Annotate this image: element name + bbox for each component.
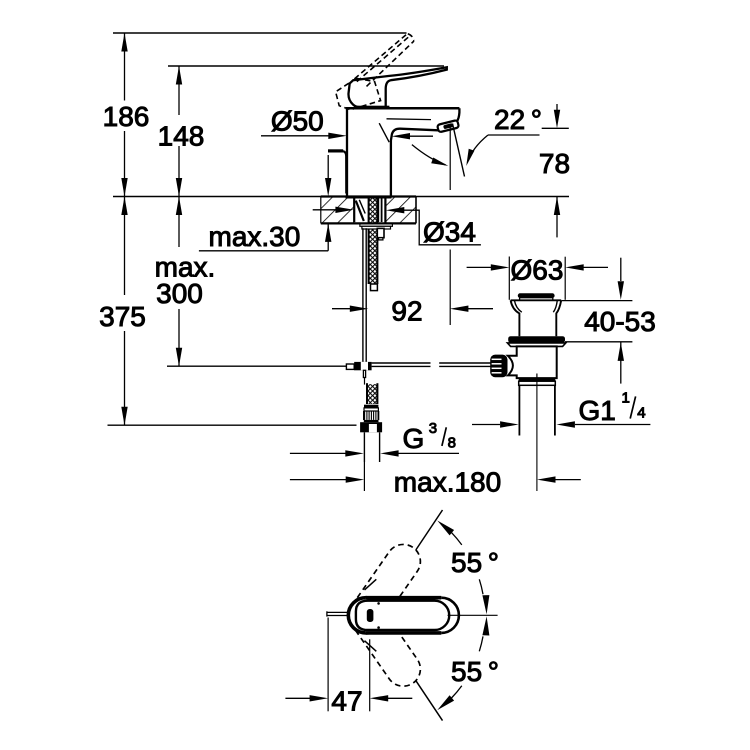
mounting flange under counter xyxy=(360,224,393,226)
wire: handle-tip reference line (148 upper extent) xyxy=(168,65,444,67)
svg-text:47: 47 xyxy=(331,686,362,717)
wire: max.300 bottom reference line xyxy=(167,365,347,367)
aerator (tilted outlet) xyxy=(437,120,459,132)
mounting nut xyxy=(362,226,391,229)
55deg upper inner tick xyxy=(365,579,377,590)
svg-text:Ø63: Ø63 xyxy=(511,254,564,285)
svg-text:4: 4 xyxy=(637,404,645,421)
svg-text:55 °: 55 ° xyxy=(451,547,499,578)
wire: top reference line (186 upper extent) xyxy=(113,32,407,34)
22-degree leader line xyxy=(488,134,540,136)
spout outlet extension line (92 right) xyxy=(449,250,451,326)
top view: circle witness dots xyxy=(377,602,380,605)
svg-text:78: 78 xyxy=(539,148,570,179)
22-degree vertical reference line xyxy=(449,128,451,191)
pop-up lift rod on faucet left xyxy=(328,149,343,152)
55deg lower line xyxy=(416,681,443,721)
dimension 40-53 xyxy=(562,300,633,302)
dimension max.180 xyxy=(290,479,346,481)
dimension 92 xyxy=(332,308,350,310)
drain rubber gasket (black) xyxy=(508,336,565,343)
spout inner contour line xyxy=(387,118,432,121)
svg-text:8: 8 xyxy=(448,434,456,451)
svg-text:3: 3 xyxy=(429,420,437,437)
drain flange bell xyxy=(511,299,562,301)
faucet body rectangle xyxy=(346,108,348,196)
faucet handle lever (solid, side view) xyxy=(348,67,446,107)
threaded shank right wall xyxy=(377,198,379,222)
svg-text:92: 92 xyxy=(391,296,422,327)
svg-text:375: 375 xyxy=(99,301,146,332)
dimension 375 vertical line xyxy=(124,197,126,296)
svg-text:max.180: max.180 xyxy=(394,467,501,498)
hose outlet stub xyxy=(377,228,384,237)
top view: handle outer outline xyxy=(366,598,459,633)
drain plug cap xyxy=(518,293,555,298)
wire: countertop reference line xyxy=(113,196,569,198)
55deg upper line xyxy=(416,510,443,550)
dimension G1 1/4 xyxy=(472,424,500,426)
dimension Ø50 leader xyxy=(261,135,333,137)
svg-text:G: G xyxy=(403,423,425,454)
22-degree slanted jet line xyxy=(453,124,465,177)
svg-text:55 °: 55 ° xyxy=(451,656,499,687)
dimension 78 xyxy=(556,104,558,111)
faucet handle raised (dashed) lever xyxy=(336,34,414,110)
svg-text:300: 300 xyxy=(156,278,203,309)
dimension max.30 xyxy=(327,155,329,179)
dimension 186 vertical line xyxy=(124,33,126,101)
svg-text:1: 1 xyxy=(622,390,630,407)
dimension Ø63 xyxy=(508,257,510,300)
dimension G3/8 xyxy=(290,452,346,454)
svg-text:186: 186 xyxy=(103,101,150,132)
pop-up transmission rod (vertical) xyxy=(362,228,364,362)
svg-text:22 °: 22 ° xyxy=(494,104,542,135)
svg-text:G1: G1 xyxy=(579,395,616,426)
aerator level extension line xyxy=(542,127,569,129)
dimension 148 vertical line xyxy=(178,66,180,115)
drain washer ring xyxy=(507,343,565,347)
threaded shank left wall xyxy=(353,198,355,223)
G3/8 connector nut xyxy=(360,422,382,432)
55deg upper arc xyxy=(452,533,462,545)
55deg lower arc xyxy=(452,686,462,698)
top view: pop-up rod xyxy=(327,611,349,613)
top view: dashed handle rotated up 55deg xyxy=(342,538,427,639)
drain body lower collar xyxy=(519,378,556,381)
hose fitting bands xyxy=(364,405,378,408)
22-degree tick on spout xyxy=(379,123,389,142)
pop-up linkage clamp block xyxy=(354,362,371,370)
top view: handle slot xyxy=(367,609,374,622)
hose end collar xyxy=(371,284,378,291)
drain knurled adjustment knob xyxy=(490,355,507,378)
svg-text:Ø50: Ø50 xyxy=(271,106,324,137)
svg-text:148: 148 xyxy=(158,121,205,152)
dimension Ø34 xyxy=(313,209,337,211)
dimension max.300 vertical line xyxy=(178,197,180,248)
top view: dashed handle rotated down 55deg xyxy=(342,591,427,692)
svg-text:max.30: max.30 xyxy=(209,221,301,252)
faucet body bottom seat line xyxy=(346,196,392,199)
hose braided section lower xyxy=(367,384,377,404)
22-degree left arc with arrow xyxy=(412,145,446,165)
svg-text:Ø34: Ø34 xyxy=(423,216,476,247)
dimension 47 xyxy=(327,618,329,712)
faucet centerline extension xyxy=(363,462,365,491)
22-degree right arc with arrow xyxy=(467,135,488,163)
wire: 375 bottom reference line xyxy=(108,424,357,426)
drain body xyxy=(508,346,557,378)
flexible hose braided section through counter xyxy=(369,199,378,285)
horizontal actuating rod (with break) xyxy=(372,362,431,364)
svg-text:40-53: 40-53 xyxy=(584,306,656,337)
drain centerline xyxy=(536,381,538,491)
top view: handle inner outline xyxy=(356,601,449,630)
top view: faucet base circle xyxy=(348,598,383,633)
connection tube below nut xyxy=(363,432,365,462)
top view: centerline xyxy=(448,614,498,616)
linkage lower stub xyxy=(363,370,365,377)
spout underside xyxy=(391,129,438,197)
faucet handle raised (dashed) boss pentagon xyxy=(336,78,381,110)
spout right edge and curve to aerator xyxy=(457,108,460,121)
drain tailpipe G1 1/4 xyxy=(518,385,520,435)
55deg lower inner tick xyxy=(365,641,377,652)
